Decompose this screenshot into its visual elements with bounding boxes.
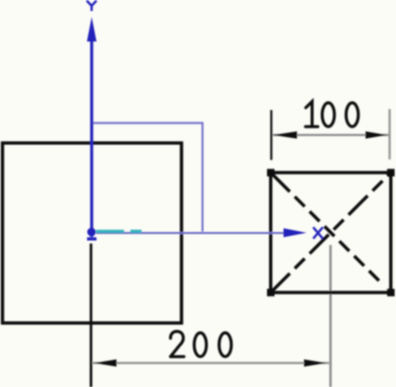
X axis tracking dash 1 (teal) — [96, 230, 124, 233]
dim 200 left arrowhead — [95, 359, 117, 366]
rubber-band rectangle top line — [92, 122, 204, 124]
X axis arrowhead — [284, 228, 307, 237]
right square diagonal BL-TR (dashed) — [271, 173, 391, 293]
X axis thin line — [96, 232, 287, 234]
dim 100 left extension line — [270, 110, 272, 160]
grip top-left — [267, 169, 275, 177]
origin marker blob — [87, 228, 96, 237]
origin marker underline bar — [87, 237, 97, 240]
right square — [271, 173, 391, 293]
grip top-right — [387, 169, 395, 177]
Y axis arrowhead — [87, 17, 97, 42]
rubber-band rectangle right line — [201, 122, 203, 232]
dim 100 left arrowhead — [273, 131, 297, 138]
dim 100 right arrowhead — [366, 131, 387, 138]
centerline of right square (200 dim right extension) — [329, 245, 331, 387]
grip bottom-left — [267, 289, 275, 297]
right square diagonal TL-BR (dashed) — [271, 173, 391, 293]
centerline of left square (200 dim left extension) — [90, 244, 93, 387]
dim 100 text "100" — [306, 102, 359, 127]
X axis tracking dash 2 (teal) — [130, 230, 141, 233]
dim 200 text "200" — [171, 331, 232, 356]
dim 200 right arrowhead — [304, 359, 326, 366]
dim 100 dimension line — [273, 134, 390, 136]
grip bottom-right — [387, 289, 395, 297]
Y axis line — [90, 27, 93, 237]
dim 200 dimension line — [93, 362, 330, 364]
dim 100 right extension line — [388, 109, 390, 160]
X axis label — [313, 227, 323, 238]
left square — [3, 143, 182, 323]
Y axis label — [87, 1, 97, 11]
